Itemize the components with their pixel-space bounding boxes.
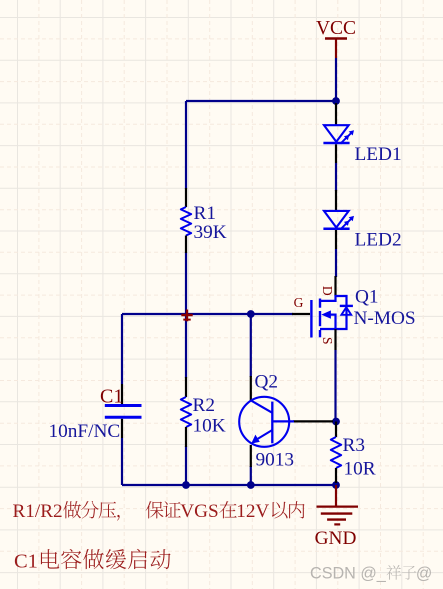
svg-text:10nF/NC: 10nF/NC <box>49 421 121 442</box>
svg-text:R1: R1 <box>194 203 217 224</box>
junction at VCC node <box>332 97 340 105</box>
capacitor C1 <box>105 384 142 438</box>
svg-text:S: S <box>320 337 335 345</box>
wire R2 lower <box>185 446 187 485</box>
svg-text:10R: 10R <box>344 459 376 480</box>
wire Q1 source to R3 <box>334 350 336 422</box>
power port GND <box>315 485 358 549</box>
LED LED1 <box>323 103 354 163</box>
junction R3 top node <box>332 418 340 426</box>
svg-text:Q2: Q2 <box>255 372 279 393</box>
svg-text:GND: GND <box>315 528 357 549</box>
svg-text:D: D <box>320 286 335 296</box>
junction R2 bottom <box>182 481 190 489</box>
svg-text:10K: 10K <box>193 416 226 437</box>
svg-text:LED2: LED2 <box>355 230 402 251</box>
wire R1 upper <box>185 101 187 189</box>
svg-text:C1: C1 <box>100 386 123 408</box>
wire LED2 to Q1 <box>335 249 337 277</box>
svg-text:R1/R2做分压，保证VGS在12V以内: R1/R2做分压，保证VGS在12V以内 <box>13 496 305 523</box>
svg-text:Q1: Q1 <box>355 287 379 308</box>
LED LED2 <box>323 190 354 249</box>
svg-text:G: G <box>294 295 304 310</box>
svg-text:R3: R3 <box>343 435 366 456</box>
wire Q2 emitter <box>250 466 252 485</box>
wire VCC vertical <box>335 58 337 102</box>
wire R1 lower <box>185 252 187 314</box>
wire LED1 to LED2 <box>335 163 337 191</box>
transistor Q2 <box>239 376 333 467</box>
junction R3 bottom / GND node <box>332 481 340 489</box>
wire top horizontal <box>186 100 336 102</box>
junction Q2 emitter bottom <box>247 481 255 489</box>
wire Q2 collector <box>250 314 252 377</box>
svg-text:9013: 9013 <box>256 450 295 471</box>
wire R2 upper <box>185 314 187 378</box>
wire C1 lower branch <box>121 438 123 485</box>
wire bottom rail <box>122 484 336 486</box>
svg-text:C1电容做缓启动: C1电容做缓启动 <box>14 544 172 575</box>
junction Q2 collector node <box>247 310 255 318</box>
svg-text:LED1: LED1 <box>355 144 402 165</box>
wire gate node horizontal <box>122 313 293 315</box>
svg-text:39K: 39K <box>194 222 227 243</box>
wire C1 upper branch <box>121 314 123 384</box>
svg-text:VCC: VCC <box>316 18 356 39</box>
no-ERC marker (red cross) <box>181 310 192 322</box>
transistor Q1 N-MOS <box>292 276 353 350</box>
resistor R2 <box>181 377 191 447</box>
resistor R1 <box>181 188 191 253</box>
svg-text:CSDN @_祥子@: CSDN @_祥子@ <box>310 561 432 584</box>
power port VCC <box>316 18 356 58</box>
svg-text:R2: R2 <box>193 395 216 416</box>
resistor R3 <box>331 422 341 484</box>
svg-text:N-MOS: N-MOS <box>354 308 416 329</box>
